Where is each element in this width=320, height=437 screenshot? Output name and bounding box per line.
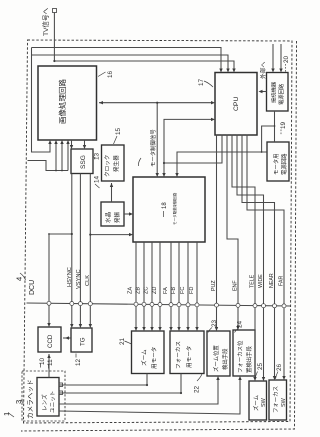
svg-text:フォーカス: フォーカス [273,386,280,413]
arrowhead TELE into zoom sw [253,377,256,381]
block: motor power supply 19 [267,142,289,181]
junction power branch bottom [261,151,263,153]
wire CPU pin5 WIDE [237,135,264,380]
svg-text:23: 23 [211,319,218,327]
svg-text:電源回路: 電源回路 [280,153,288,175]
svg-text:ZC: ZC [144,287,150,294]
hop over motor ZA [134,302,138,306]
wire motor drive out fd [196,242,198,329]
svg-text:フォーカス位: フォーカス位 [236,340,244,373]
svg-text:4: 4 [15,277,24,281]
arrowhead input b into image proc [54,140,57,144]
leader 16 [98,72,106,77]
wire CPU pin3 to focus sensor [227,135,238,329]
arrowhead CLK into drive circuit [129,233,133,236]
arrowhead VSYNC into TG [79,324,82,328]
svg-text:CPU: CPU [233,97,240,111]
junction lens line zoom motor [146,384,148,386]
leader 15 [114,136,118,144]
arrowhead FC into focus motor [186,327,189,331]
hop over HSYNC [70,302,74,306]
wire top bus 3 to CPU [54,61,234,70]
wire motor drive out zb [143,242,145,329]
hop over VSYNC [78,302,82,306]
svg-text:VSYNC: VSYNC [76,269,82,289]
svg-text:FB: FB [171,287,177,294]
block: CPU 17 [215,73,257,136]
svg-text:10: 10 [39,357,46,365]
arrowhead ZD into zoom motor [158,327,161,331]
wire crystal to motor drive [124,213,131,215]
arrowhead input d into image proc [66,140,69,144]
wire bus image proc - CPU [99,102,213,104]
arrowhead bus branch into drive circuit [156,173,159,177]
svg-text:WIDE: WIDE [258,274,264,288]
wire power supply external out [261,91,267,93]
arrowhead HSYNC into TG [70,324,73,328]
leader 4 [20,273,26,280]
arrowhead input c into image proc [60,140,63,144]
wire lens to CCD [48,354,50,378]
hop over motor FA [169,303,173,307]
block: focus position detector 24 [233,330,255,376]
svg-text:ズーム位置: ズーム位置 [212,345,220,372]
wire image proc to SSG b [84,140,86,147]
leader 1 [9,413,15,417]
svg-text:外部へ: 外部へ [259,61,267,79]
arrowhead ZB into zoom motor [142,327,145,331]
block: motor drive control 18 [133,177,205,242]
junction power branch top [274,125,276,127]
camera head dashed box 3 [22,371,65,421]
svg-text:FD: FD [189,287,195,294]
arrowhead external output [259,90,263,93]
leader 13 [93,157,96,159]
svg-text:ZB: ZB [136,287,142,294]
svg-text:22: 22 [194,385,201,393]
leader 19 [280,130,282,136]
wire motor drive out fb [178,242,180,329]
hop over motor ZC [150,302,154,306]
arrowhead NEAR into focus sw [273,376,276,380]
wire HSYNC branch to CCD [49,234,72,325]
arrowhead bus1 into CPU [219,69,222,73]
arrowhead FB into focus motor [177,327,180,331]
block: SSG 13 [71,149,93,174]
wire TV signal out [53,13,55,62]
arrowhead FAR into focus sw [282,376,285,380]
hop over CCD feed [47,301,51,305]
wire CPU pin1 to zoom sensor [216,135,218,330]
leader 17 [204,81,213,87]
svg-text:17: 17 [198,78,205,86]
svg-text:モータ制御信号: モータ制御信号 [149,129,157,167]
arrowhead CLK into TG [89,324,92,328]
arrowhead FA into focus motor [169,327,172,331]
svg-text:レンズ: レンズ [41,394,49,411]
hop over WIDE line [262,304,266,308]
svg-text:12: 12 [75,358,82,366]
arrowhead bus into image proc [99,101,103,104]
arrowhead WIDE into zoom sw [262,377,265,381]
hop over motor ZB [142,302,146,306]
svg-text:用モータ: 用モータ [150,347,158,369]
wire motor drive out zd [159,242,161,329]
wire image proc to SSG a [71,140,73,147]
terminal squares [53,9,63,395]
arrowhead sync into CCD [47,323,50,327]
block: zoom switch 25 [249,381,267,420]
junction input jog b [55,170,57,172]
svg-text:3: 3 [14,400,23,404]
junction HSYNC branch [71,233,73,235]
leader 23 [208,328,212,333]
wire TG to CCD [63,337,71,339]
wire top bus 2 to CPU [32,55,229,70]
terminal lens wire a [59,383,63,387]
hop over FAR line [282,304,286,308]
block: image processing circuit 16 [38,66,97,140]
junction bus branch [156,102,158,104]
wire CPU pin6 NEAR [242,135,275,379]
wire CPU to motor drive [164,119,213,175]
svg-text:ENF: ENF [233,280,239,291]
wire image proc input b [55,142,57,171]
svg-text:TELE: TELE [250,274,256,288]
wire bus branch to motor drive [156,103,158,175]
wire external in b [280,44,282,71]
wire power to motor drive [177,152,267,177]
svg-text:CCD: CCD [47,334,54,348]
leader lines [9,64,286,417]
svg-text:11: 11 [47,359,54,366]
svg-text:24: 24 [237,320,244,328]
arrowhead bus into CPU [211,101,215,104]
svg-text:CLK: CLK [85,275,91,286]
leader 21 [125,341,132,344]
wire CPU pin2 stub [164,135,222,164]
leader 14 [95,184,100,188]
arrowhead ZC into zoom motor [150,327,153,331]
svg-text:カメラヘッド: カメラヘッド [27,379,35,419]
block: zoom motor 21 [132,331,165,374]
wire external in a [272,44,274,71]
wire lens to zoom sensor [59,378,218,404]
svg-text:クロック: クロック [104,155,111,177]
outer dashed boundary (right/bottom) [21,41,297,431]
svg-text:16: 16 [107,70,114,78]
svg-text:18: 18 [162,202,168,209]
junction CLK branch [89,234,91,236]
hop over motor ZD [158,303,162,307]
block: TG 12 [71,328,92,352]
arrowhead lens into CCD [47,354,50,358]
svg-text:水晶: 水晶 [104,211,112,223]
svg-text:TV信号へ: TV信号へ [41,7,50,36]
block: external-device power supply 20 [267,73,289,112]
wire lens to zoom motor [59,374,147,386]
svg-text:NEAR: NEAR [269,273,275,288]
wire motor drive out fc [187,242,189,329]
svg-text:13: 13 [94,152,101,160]
svg-text:PUZ: PUZ [211,280,217,291]
leader 12 [75,354,77,358]
arrowhead ctrl into CPU [211,118,215,121]
wire motor drive out fa [170,242,172,329]
hop circles on crossing line [47,301,286,308]
wire top bus 1 to CPU [32,48,222,71]
hop over motor FC [186,303,190,307]
block: CCD 11 [38,327,61,352]
junction CPU pin2 tap [163,162,165,164]
svg-text:フォーカス: フォーカス [175,341,182,369]
block: focus motor 22 [170,331,204,374]
svg-text:置検出手段: 置検出手段 [245,345,253,373]
leader 25 [255,372,258,380]
arrowhead lens into zoom sensor [216,376,219,380]
wire image proc input d [67,142,69,171]
leader 11 [48,365,50,369]
hop over motor FD [195,303,199,307]
svg-text:14: 14 [94,175,101,183]
svg-text:SW: SW [261,397,267,407]
junction TV wire / bus3 [53,60,55,62]
svg-text:検出手段: 検出手段 [221,348,229,370]
leader 20 [285,64,287,73]
arrowhead ZA into zoom motor [134,327,137,331]
svg-text:モータ駆動制御回路: モータ駆動制御回路 [172,192,177,225]
wire VSYNC [79,174,81,327]
arrowhead TG into CCD [65,336,69,339]
hop over motor FB [177,303,181,307]
wire left bus down to image proc input [32,48,51,153]
terminal TV output [53,9,57,13]
svg-text:FC: FC [180,287,186,294]
svg-text:HSYNC: HSYNC [67,267,73,287]
block: clock generator 15 [102,145,125,181]
arrowhead ext line b into psu [279,69,282,73]
svg-text:ユニット: ユニット [50,391,57,413]
dashed enclosure DCU (box 4) [24,40,293,423]
svg-text:DCU: DCU [29,280,36,295]
arrowhead bus2 into CPU [226,69,229,73]
wire lens to focus sensor [59,378,240,414]
svg-text:25: 25 [257,362,264,370]
wire crystal to clock gen [111,183,113,202]
svg-text:ズーム: ズーム [252,394,260,411]
arrowhead oscillator into drive circuit [129,212,133,215]
arrowhead ENF into focus sensor [236,326,239,330]
svg-text:ズーム: ズーム [140,349,148,366]
block: lens unit 10 [37,378,59,417]
hop over CLK [88,302,92,306]
terminal lens wire b [59,391,63,395]
svg-text:発振: 発振 [113,211,121,223]
svg-text:発生器: 発生器 [112,155,120,172]
block: crystal oscillator 14 [101,202,124,226]
junction CCD feed [48,233,50,235]
arrowhead bus3 into CPU [232,69,235,73]
svg-text:TG: TG [80,337,87,346]
arrowhead FD into focus motor [195,327,198,331]
arrowhead lens into focus sensor [238,376,241,380]
svg-text:用モータ: 用モータ [185,346,193,368]
wire image proc input c [61,142,63,171]
wire partition line [27,303,291,306]
wire HSYNC [71,174,73,327]
hop over TELE line [253,304,257,308]
arrowhead into SSG b [83,145,86,149]
hop over NEAR line [273,304,277,308]
wire CLK branch to motor drive [90,234,131,236]
wire lens to focus motor [59,374,181,394]
svg-text:20: 20 [283,55,290,63]
block: zoom position detector 23 [207,331,230,376]
arrowhead PUZ into zoom sensor [215,327,218,331]
arrowhead power into drive circuit [175,173,178,177]
arrowhead CPU into drive circuit [162,173,165,177]
svg-text:FAR: FAR [279,276,285,286]
svg-text:ZA: ZA [128,287,134,294]
arrowhead oscillator into clock gen [110,183,113,187]
wire CPU pin7 FAR [247,135,284,379]
svg-text:画像処理回路: 画像処理回路 [57,79,67,124]
junction lens line focus motor [180,392,182,394]
hop over ENF line [236,303,240,307]
leader 22 [197,374,202,381]
leader 24 [235,329,239,333]
svg-text:15: 15 [115,127,122,135]
leader 18 [163,211,165,217]
block: focus switch 26 [269,380,287,420]
wire CLK [89,174,91,327]
svg-text:モータ用: モータ用 [272,153,280,175]
arrowhead input a into image proc [48,140,51,144]
hop over PUZ line [215,303,219,307]
svg-text:ZD: ZD [152,287,158,294]
svg-text:SSG: SSG [80,155,87,169]
junction input jog c [61,170,63,172]
wire power supply link [274,111,276,142]
leader 3 [21,400,24,403]
leader 10 [40,364,42,368]
bracket motor signal [138,158,141,166]
svg-text:FA: FA [163,287,169,294]
wire power branch to drive circuit [262,126,275,152]
arrowhead ext line a into psu [271,69,274,73]
svg-text:19: 19 [280,121,287,129]
arrowhead into SSG a [70,145,73,149]
svg-text:電源回路: 電源回路 [277,83,285,105]
wire motor drive out zc [151,242,153,329]
svg-text:26: 26 [276,363,283,371]
svg-text:接続機器: 接続機器 [270,81,278,103]
wire motor drive out za [135,242,137,329]
wire input jog from border [28,161,69,171]
wire CPU pin4 TELE [232,135,255,380]
svg-text:SW: SW [281,397,287,407]
leader 26 [276,372,279,380]
